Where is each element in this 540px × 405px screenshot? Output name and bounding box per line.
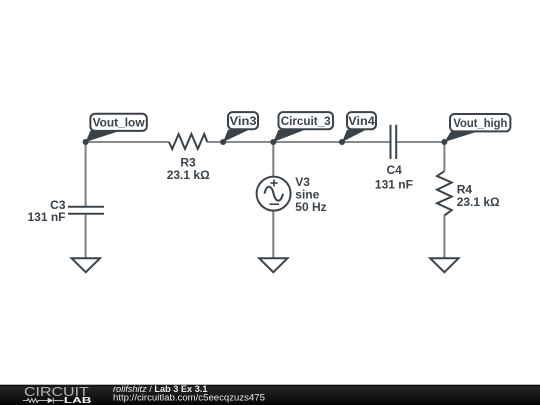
resistor R3 xyxy=(169,134,207,149)
node Vin3 xyxy=(220,139,226,145)
wire: V3 bottom to ground xyxy=(272,211,274,258)
node Vin4 xyxy=(339,139,345,145)
wire: Vout_high node down to R4 top xyxy=(443,142,445,171)
net flag Circuit_3 xyxy=(273,112,333,142)
ground (C3 branch) xyxy=(72,258,100,272)
capacitor C4 xyxy=(391,125,397,159)
wire: Vout_low node down to C3 top plate xyxy=(85,142,87,206)
svg-text:Vin4: Vin4 xyxy=(348,114,375,128)
svg-text:23.1 kΩ: 23.1 kΩ xyxy=(457,195,500,209)
net flag Vout_high xyxy=(444,114,510,142)
wire: R4 bottom to ground xyxy=(443,215,445,258)
svg-text:23.1 kΩ: 23.1 kΩ xyxy=(167,168,210,182)
resistor R4 xyxy=(437,171,452,215)
wire: Circuit_3 node down to V3 top xyxy=(272,142,274,177)
voltage source V3 xyxy=(257,177,291,211)
node Vout_low xyxy=(83,139,89,145)
svg-text:Vin3: Vin3 xyxy=(230,114,257,128)
svg-text:Vout_low: Vout_low xyxy=(93,116,146,130)
wire: C4 right plate to Vout_high node xyxy=(397,141,444,143)
net flag Vout_low xyxy=(86,114,147,142)
ground (R4 branch) xyxy=(430,258,458,272)
net flag Vin3 xyxy=(223,112,258,142)
wire: R3 right lead through Vin3, Circuit_3, Vin4 to C4 left plate xyxy=(207,141,389,143)
capacitor C3 xyxy=(68,207,104,214)
ground (V3 branch) xyxy=(259,258,287,272)
svg-text:Vout_high: Vout_high xyxy=(453,116,507,130)
wire: Vout_low node to R3 left lead xyxy=(85,141,169,143)
CircuitLab logo: diode triangle xyxy=(48,398,53,404)
net flag Vin4 xyxy=(342,112,376,142)
svg-text:131 nF: 131 nF xyxy=(375,177,413,191)
svg-text:C4: C4 xyxy=(387,163,403,177)
svg-text:Circuit_3: Circuit_3 xyxy=(281,114,331,128)
node Circuit_3 xyxy=(270,139,276,145)
wire: C3 bottom plate to ground xyxy=(85,215,87,258)
svg-text:131 nF: 131 nF xyxy=(27,210,65,224)
CircuitLab logo: resistor-diode schematic line xyxy=(23,398,64,404)
svg-text:http://circuitlab.com/c5eecqzu: http://circuitlab.com/c5eecqzuzs475 xyxy=(113,393,265,404)
svg-text:LAB: LAB xyxy=(64,396,92,405)
node Vout_high xyxy=(441,139,447,145)
svg-text:50 Hz: 50 Hz xyxy=(295,200,326,214)
footer bar xyxy=(0,385,540,405)
